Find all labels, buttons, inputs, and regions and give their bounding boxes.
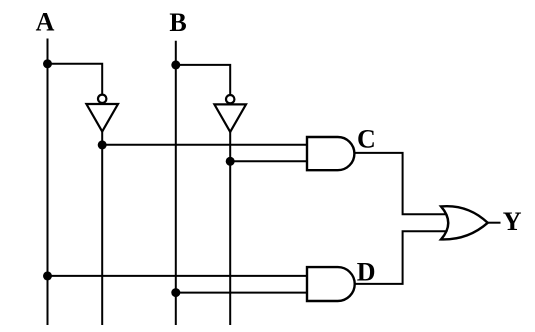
AND gate D	[307, 267, 355, 301]
svg-text:Y: Y	[503, 207, 522, 236]
OR gate	[441, 206, 488, 239]
wire AND C output to OR gate top input	[354, 153, 449, 214]
wire from node on A to inverter U1 input	[48, 64, 103, 95]
wire A' to AND gate C top input	[102, 144, 307, 146]
node on A (to AND D)	[43, 271, 52, 280]
wire input A vertical	[47, 39, 49, 326]
node B' (U2 output)	[226, 157, 235, 166]
AND gate C	[307, 137, 354, 170]
wire OR gate output to Y	[488, 222, 501, 224]
wire input B vertical	[175, 41, 177, 325]
wire inverter U1 output vertical (A')	[101, 132, 103, 326]
wire A node to AND gate D top input	[48, 275, 308, 277]
node on B (to AND D)	[171, 288, 180, 297]
node on B (to U2)	[171, 60, 180, 69]
svg-text:D: D	[357, 257, 376, 286]
wire B node to AND gate D bottom input	[176, 292, 308, 294]
wire inverter U2 output vertical (B')	[229, 132, 231, 326]
inverter U2 (NOT gate on B)	[214, 95, 246, 132]
node on A (to U1)	[43, 59, 52, 68]
svg-text:A: A	[36, 8, 55, 37]
svg-text:B: B	[169, 8, 186, 37]
wire from node on B to inverter U2 input	[176, 65, 230, 96]
inverter U1 (NOT gate on A)	[86, 95, 118, 132]
wire AND D output to OR gate bottom input	[354, 231, 449, 284]
node A' (U1 output)	[98, 140, 107, 149]
svg-text:C: C	[357, 125, 376, 154]
wire B' node to AND gate C bottom input	[230, 160, 307, 162]
